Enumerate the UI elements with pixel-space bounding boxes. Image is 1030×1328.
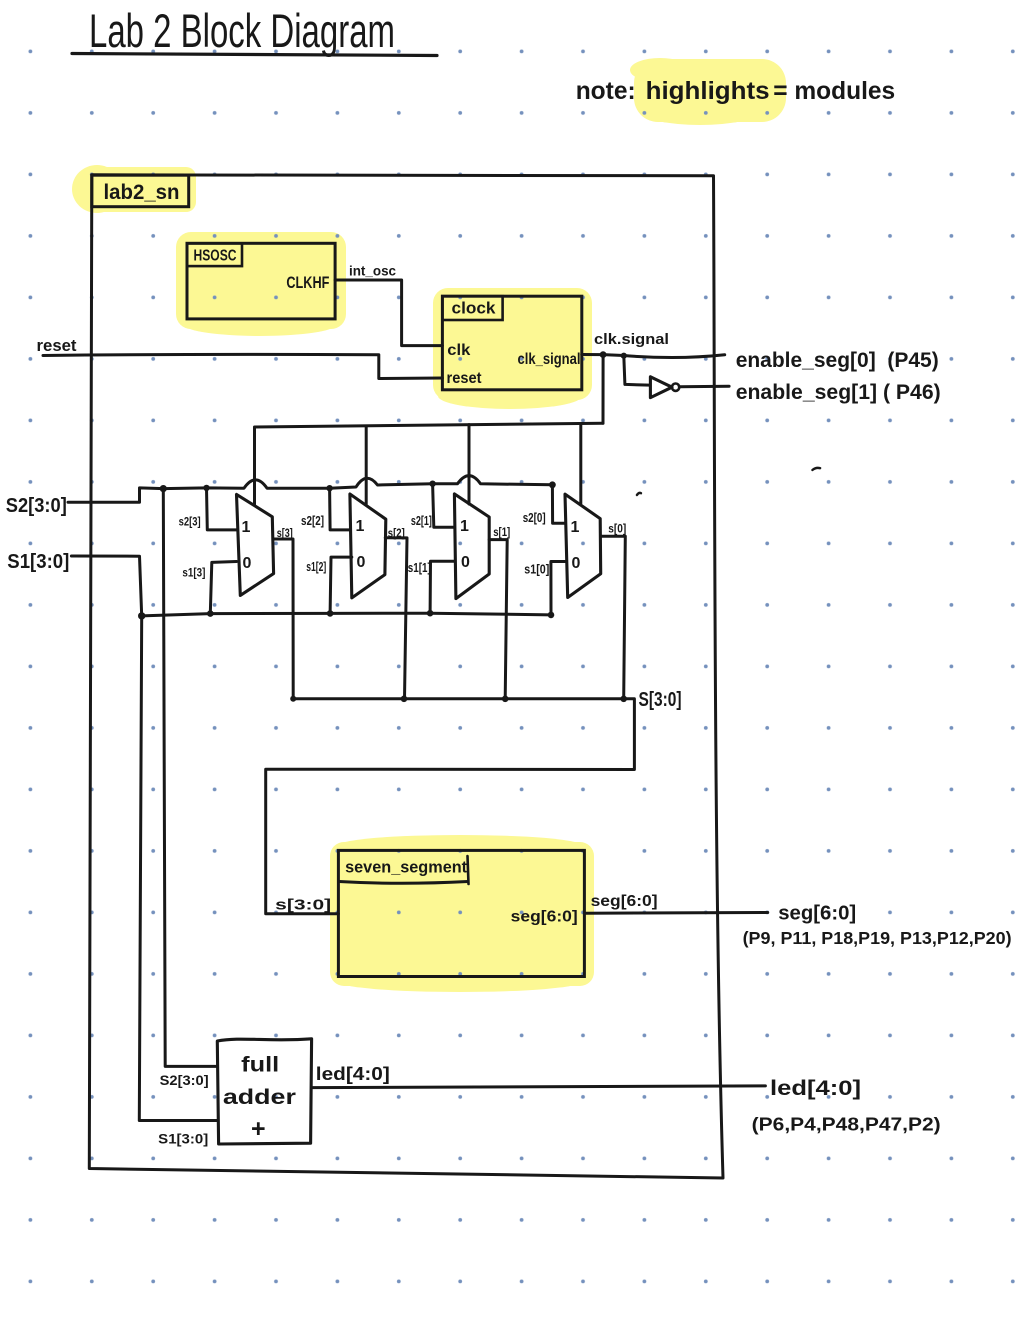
svg-text:0: 0 (461, 554, 470, 571)
wire seg[6:0] output (584, 893, 767, 913)
svg-text:s2[0]: s2[0] (523, 511, 546, 525)
svg-text:clk.signal: clk.signal (594, 331, 669, 348)
wire s2[1] (411, 484, 455, 528)
mux U2 (bit 2) (350, 494, 386, 598)
module boundary lab2_sn (outer box) (89, 175, 723, 1178)
svg-text:s1[1]: s1[1] (408, 561, 431, 575)
wire s[0] output of U4 (601, 522, 626, 699)
wire S1[3:0] to full adder (139, 616, 217, 1147)
svg-text:1: 1 (571, 519, 580, 536)
wire s[2] output of U2 (385, 526, 407, 699)
svg-text:1: 1 (356, 518, 365, 535)
wire S2[3:0] to full adder (160, 489, 218, 1088)
junction s[3] on S bus (290, 696, 296, 702)
junction s2[0] tap (549, 481, 556, 488)
svg-text:s[0]: s[0] (608, 522, 626, 536)
title: Lab 2 Block Diagram (72, 4, 437, 57)
highlighter blob of note word (630, 58, 786, 125)
svg-text:adder: adder (223, 1086, 296, 1109)
svg-text:clk_signal: clk_signal (518, 351, 581, 368)
wire s2[3] (179, 488, 237, 530)
oscillator HSOSC (187, 243, 335, 319)
module seven_segment (338, 850, 584, 976)
svg-text:led[4:0]: led[4:0] (770, 1076, 861, 1100)
svg-text:s2[2]: s2[2] (301, 514, 324, 528)
svg-text:S1[3:0]: S1[3:0] (7, 551, 69, 573)
svg-text:HSOSC: HSOSC (194, 248, 237, 265)
junction s2[1] tap (429, 481, 435, 487)
svg-text:enable_seg[1] ( P46): enable_seg[1] ( P46) (736, 380, 941, 404)
svg-text:s[3:0]: s[3:0] (275, 897, 331, 914)
junction s1[1] tap (427, 610, 434, 617)
junction S2 to full adder (160, 485, 167, 492)
net clk_signal: output wire with junctions (582, 331, 725, 357)
mux U1 (bit 3) (237, 494, 274, 595)
junction s1[0] tap (548, 612, 555, 619)
wire s2[2] (301, 488, 350, 530)
highlighter blob of lab2_sn label (72, 165, 196, 213)
svg-text:seg[6:0]: seg[6:0] (778, 902, 856, 925)
junction s[2] on S bus (401, 696, 408, 703)
svg-text:0: 0 (357, 554, 366, 571)
svg-text:s2[3]: s2[3] (179, 515, 201, 529)
junction S1 to full adder (138, 612, 145, 619)
svg-text:highlights: highlights (646, 77, 770, 105)
svg-text:0: 0 (572, 555, 581, 572)
highlighter blob of seven_segment module (330, 835, 594, 992)
svg-text:S2[3:0]: S2[3:0] (160, 1073, 209, 1088)
wire s1[3] (182, 562, 236, 614)
note annotation: highlights = modules (576, 77, 896, 105)
svg-text:(P9, P11, P18,P19, P13,P12,P20: (P9, P11, P18,P19, P13,P12,P20) (743, 928, 1012, 948)
wire s[3] output of U1 (273, 526, 293, 699)
wire led[4:0] output (312, 1063, 766, 1088)
highlighter blob of HSOSC module (176, 232, 346, 336)
svg-text:s[2]: s[2] (388, 526, 405, 540)
wire s2[0] (523, 485, 565, 525)
wire s1[0] (524, 562, 566, 615)
svg-text:lab2_sn: lab2_sn (104, 181, 180, 204)
svg-text:Lab 2 Block Diagram: Lab 2 Block Diagram (89, 4, 395, 57)
wire s1[1] (408, 561, 455, 613)
svg-text:S1[3:0]: S1[3:0] (158, 1132, 208, 1147)
svg-text:s1[2]: s1[2] (306, 560, 326, 574)
svg-text:0: 0 (243, 555, 252, 572)
svg-text:s[3]: s[3] (277, 526, 293, 540)
svg-text:full: full (241, 1054, 279, 1077)
junction s2[2] tap (326, 485, 332, 491)
label box lab2_sn (92, 175, 189, 207)
wire to inverter input (624, 356, 650, 385)
svg-text:seg[6:0]: seg[6:0] (511, 909, 578, 926)
junction on clk_signal (to clock row) (600, 351, 607, 358)
svg-text:seven_segment: seven_segment (345, 859, 467, 877)
svg-text:s[1]: s[1] (493, 525, 510, 539)
svg-text:s2[1]: s2[1] (411, 514, 432, 528)
svg-text:enable_seg[0] (P45): enable_seg[0] (P45) (736, 348, 939, 372)
svg-text:seg[6:0]: seg[6:0] (591, 893, 658, 910)
full adder (217, 1039, 311, 1144)
svg-text:note:: note: (576, 77, 636, 105)
wire clock distribution row to mux selects (255, 423, 604, 505)
junction s1[3] tap (207, 610, 214, 617)
stray pen mark right area (812, 468, 820, 470)
svg-text:+: + (251, 1115, 266, 1143)
highlighter blob of clock module (433, 288, 592, 409)
bus S2[3:0] entry and distribution (6, 476, 553, 517)
wire enable_seg[1] from inverter (679, 385, 729, 389)
svg-text:= modules: = modules (773, 77, 895, 105)
svg-text:CLKHF: CLKHF (286, 273, 329, 292)
junction s2[3] tap (203, 485, 209, 491)
module clock (442, 296, 581, 390)
wire s1[2] (306, 557, 352, 613)
svg-text:S2[3:0]: S2[3:0] (6, 495, 67, 517)
svg-text:(P6,P4,P48,P47,P2): (P6,P4,P48,P47,P2) (752, 1115, 941, 1135)
svg-text:led[4:0]: led[4:0] (316, 1063, 390, 1084)
svg-text:clk: clk (447, 342, 470, 359)
svg-text:s1[0]: s1[0] (524, 563, 549, 577)
wire clk_signal down to mux clock row (602, 355, 605, 424)
mux U3 (bit 1) (454, 494, 489, 599)
bus S1[3:0] entry and distribution (7, 551, 551, 616)
junction s[1] on S bus (502, 696, 509, 703)
stray pen mark near mux 4 (637, 493, 641, 495)
wire s[1] output of U3 (489, 525, 510, 699)
port reset and wire reset (37, 336, 443, 379)
junction s1[2] tap (327, 610, 334, 617)
svg-text:S[3:0]: S[3:0] (639, 689, 682, 711)
junction s[0] on S bus (620, 696, 627, 703)
svg-text:1: 1 (242, 519, 251, 536)
mux U4 (bit 0) (565, 494, 601, 597)
inverter (NOT gate) (650, 377, 679, 398)
wire int_osc (HSOSC CLKHF to clock clk) (335, 263, 442, 346)
svg-text:s1[3]: s1[3] (182, 566, 205, 580)
svg-text:clock: clock (452, 299, 497, 318)
junction on clk_signal (to inverter) (621, 353, 627, 359)
svg-text:1: 1 (460, 518, 469, 535)
bus S[3:0] routing to seven_segment (266, 689, 682, 914)
svg-text:reset: reset (37, 336, 77, 355)
svg-text:reset: reset (447, 370, 483, 387)
svg-text:int_osc: int_osc (349, 263, 396, 279)
